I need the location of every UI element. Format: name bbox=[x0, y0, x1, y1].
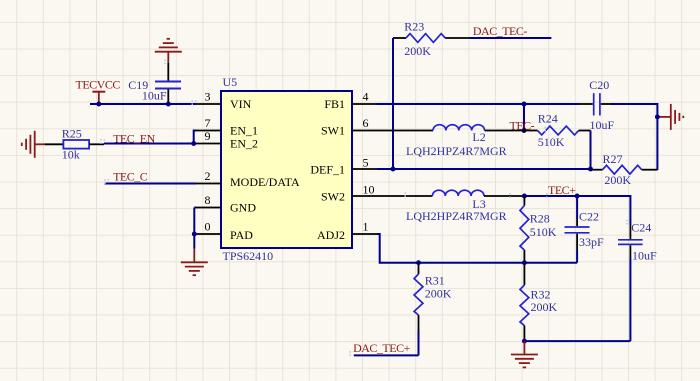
svg-text:FB1: FB1 bbox=[324, 97, 345, 111]
ground (right, FB1 output) bbox=[657, 104, 683, 130]
wire ADJ2 net bbox=[377, 234, 577, 263]
svg-text:510K: 510K bbox=[538, 135, 565, 149]
svg-text:7: 7 bbox=[205, 116, 211, 130]
wire TEC_C net bbox=[105, 183, 196, 185]
svg-text:1: 1 bbox=[363, 220, 369, 234]
node R32/C24/gnd junction bbox=[522, 339, 527, 344]
node ground tap bbox=[655, 114, 660, 119]
svg-text:MODE/DATA: MODE/DATA bbox=[230, 175, 300, 189]
pin 5 DEF_1 bbox=[310, 156, 377, 177]
svg-text:4: 4 bbox=[363, 90, 369, 104]
pin 3 VIN bbox=[196, 90, 252, 111]
pin 9 EN_2 bbox=[196, 129, 258, 150]
wire TEC_EN net bbox=[104, 131, 196, 144]
node C22 tap bbox=[575, 194, 580, 199]
capacitor C19 bbox=[128, 63, 181, 104]
svg-text:200K: 200K bbox=[531, 300, 558, 314]
svg-text:DAC_TEC-: DAC_TEC- bbox=[473, 24, 528, 38]
svg-text:PAD: PAD bbox=[230, 228, 253, 242]
svg-text:SW2: SW2 bbox=[321, 189, 345, 203]
svg-text:10k: 10k bbox=[62, 148, 80, 162]
svg-text:R28: R28 bbox=[530, 212, 550, 226]
svg-text:TECVCC: TECVCC bbox=[76, 78, 121, 92]
node R31 tap bbox=[416, 260, 421, 265]
svg-text:R25: R25 bbox=[62, 126, 82, 140]
ground (top, above C19) bbox=[155, 39, 182, 63]
wire GND/PAD tie bbox=[193, 208, 195, 249]
svg-text:R27: R27 bbox=[603, 152, 623, 166]
svg-text:10: 10 bbox=[363, 182, 375, 196]
svg-text:R31: R31 bbox=[425, 274, 445, 288]
resistor R24 bbox=[524, 112, 591, 150]
svg-text:GND: GND bbox=[230, 200, 256, 214]
node TECVCC junction bbox=[96, 102, 101, 107]
svg-text:200K: 200K bbox=[404, 44, 431, 58]
power TECVCC bbox=[76, 78, 121, 104]
svg-text:EN_2: EN_2 bbox=[230, 136, 258, 150]
inductor L3 bbox=[377, 190, 524, 223]
svg-text:R24: R24 bbox=[538, 112, 558, 126]
svg-text:DEF_1: DEF_1 bbox=[310, 162, 345, 176]
wire VIN net bbox=[90, 103, 196, 105]
svg-text:VIN: VIN bbox=[230, 97, 252, 111]
svg-text:3: 3 bbox=[205, 90, 211, 104]
svg-text:TEC+: TEC+ bbox=[548, 183, 576, 197]
svg-text:10uF: 10uF bbox=[142, 88, 167, 102]
node R28/R32 junction bbox=[522, 260, 527, 265]
pin 6 SW1 bbox=[321, 116, 377, 137]
svg-text:EN_1: EN_1 bbox=[230, 123, 258, 137]
inductor L2 bbox=[377, 125, 524, 158]
svg-text:10uF: 10uF bbox=[590, 118, 615, 132]
pin 0 PAD bbox=[196, 220, 253, 242]
resistor R28 bbox=[520, 196, 557, 263]
svg-text:R23: R23 bbox=[404, 20, 424, 34]
wire C24 bottom to ground bbox=[524, 340, 630, 342]
svg-text:2: 2 bbox=[205, 169, 211, 183]
svg-text:LQH2HPZ4R7MGR: LQH2HPZ4R7MGR bbox=[406, 144, 507, 158]
resistor R23 bbox=[393, 20, 470, 58]
svg-text:6: 6 bbox=[363, 116, 369, 130]
svg-text:L2: L2 bbox=[472, 130, 485, 144]
svg-text:ADJ2: ADJ2 bbox=[317, 228, 345, 242]
svg-text:10uF: 10uF bbox=[632, 249, 657, 263]
resistor R27 bbox=[591, 152, 658, 187]
ground (left of R25) bbox=[22, 131, 45, 158]
svg-text:DAC_TEC+: DAC_TEC+ bbox=[353, 341, 411, 355]
svg-text:5: 5 bbox=[363, 156, 369, 170]
wire FB1 net bbox=[377, 104, 657, 170]
resistor R32 bbox=[520, 263, 558, 341]
wire DAC_TEC- net bbox=[393, 38, 551, 169]
wire DEF_1 net bbox=[377, 168, 591, 170]
pin 1 ADJ2 bbox=[317, 220, 377, 242]
svg-text:200K: 200K bbox=[604, 173, 631, 187]
node R24/R27 junction bbox=[588, 167, 593, 172]
node FB1 tap bbox=[522, 102, 527, 107]
node EN junction bbox=[191, 141, 196, 146]
svg-text:C22: C22 bbox=[579, 210, 599, 224]
svg-text:TPS62410: TPS62410 bbox=[223, 249, 274, 263]
capacitor C22 bbox=[565, 196, 605, 263]
wire DAC_TEC+ net bbox=[354, 354, 419, 356]
svg-text:C24: C24 bbox=[631, 221, 651, 235]
node PAD junction bbox=[192, 232, 197, 237]
node TEC- tap bbox=[522, 128, 527, 133]
svg-text:200K: 200K bbox=[425, 287, 452, 301]
node C19 junction bbox=[166, 102, 171, 107]
ground (bottom) bbox=[511, 341, 538, 367]
hotspot grid marks bbox=[100, 60, 628, 356]
svg-text:TEC_EN: TEC_EN bbox=[113, 132, 155, 146]
capacitor C20 bbox=[579, 78, 615, 132]
node R28 tap bbox=[522, 194, 527, 199]
svg-text:U5: U5 bbox=[223, 75, 238, 89]
pin 8 GND bbox=[196, 193, 256, 214]
resistor R25 bbox=[45, 126, 104, 161]
svg-text:8: 8 bbox=[205, 193, 211, 207]
node R23/DEF_1 junction bbox=[391, 167, 396, 172]
svg-text:0: 0 bbox=[205, 220, 211, 234]
pin 10 SW2 bbox=[321, 182, 377, 203]
wire R24 to DEF_1 bbox=[590, 131, 592, 170]
svg-text:33pF: 33pF bbox=[579, 235, 604, 249]
svg-text:510K: 510K bbox=[530, 225, 557, 239]
svg-text:9: 9 bbox=[205, 129, 211, 143]
pin 2 MODE/DATA bbox=[196, 169, 300, 189]
pin 4 FB1 bbox=[324, 90, 377, 111]
svg-text:SW1: SW1 bbox=[321, 123, 345, 137]
resistor R31 bbox=[414, 263, 452, 356]
capacitor C24 bbox=[618, 221, 657, 342]
ground (below IC) bbox=[181, 249, 208, 276]
IC U5 TPS62410 bbox=[221, 75, 352, 263]
wire TEC+ net bbox=[524, 196, 630, 225]
pin 7 EN_1 bbox=[196, 116, 258, 137]
svg-text:TEC_C: TEC_C bbox=[113, 169, 148, 183]
svg-text:LQH2HPZ4R7MGR: LQH2HPZ4R7MGR bbox=[406, 209, 507, 223]
svg-text:C20: C20 bbox=[589, 78, 609, 92]
